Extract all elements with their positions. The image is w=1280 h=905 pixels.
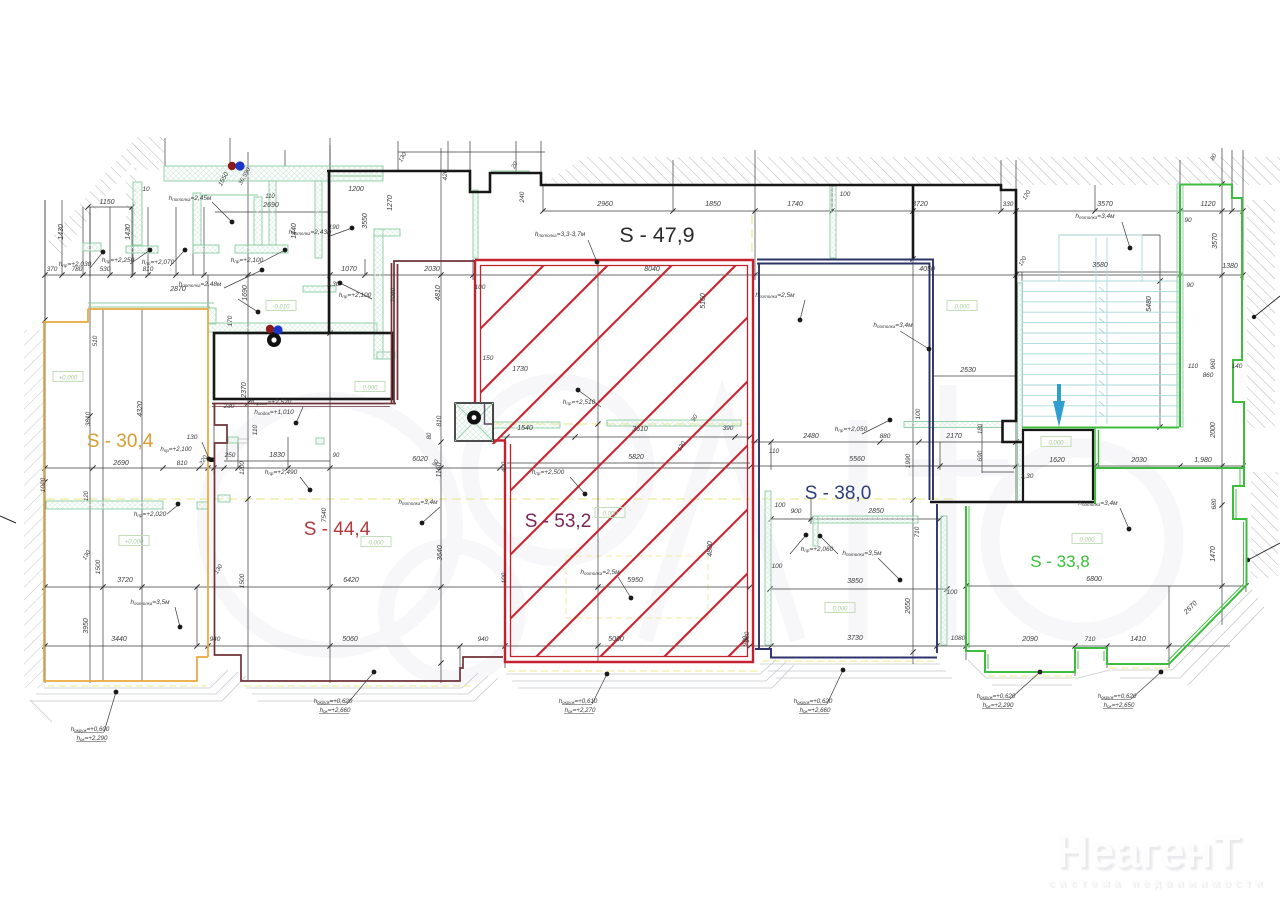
svg-text:2960: 2960	[596, 201, 613, 208]
svg-text:0,000: 0,000	[362, 386, 378, 392]
svg-text:6420: 6420	[343, 577, 359, 584]
svg-text:80: 80	[427, 432, 433, 439]
svg-text:140: 140	[1232, 363, 1243, 370]
svg-text:0,000: 0,000	[368, 541, 384, 547]
svg-text:250: 250	[224, 452, 236, 459]
svg-text:5560: 5560	[849, 456, 865, 463]
svg-text:130: 130	[398, 151, 409, 163]
svg-text:8040: 8040	[644, 266, 660, 273]
svg-text:S - 38,0: S - 38,0	[805, 483, 872, 504]
svg-text:90: 90	[1184, 217, 1192, 224]
svg-text:2530: 2530	[959, 367, 976, 374]
red/blue dots	[228, 162, 236, 170]
svg-text:1080: 1080	[951, 635, 966, 642]
svg-text:10: 10	[142, 186, 150, 193]
svg-text:hподок=+1,010: hподок=+1,010	[254, 409, 294, 416]
svg-text:5950: 5950	[627, 577, 643, 584]
teal partition w3	[254, 197, 262, 245]
svg-text:hокруж=+0,620: hокруж=+0,620	[1098, 693, 1137, 700]
svg-text:hок=+2,290: hок=+2,290	[983, 702, 1014, 709]
svg-text:hпотолка=2,5м: hпотолка=2,5м	[580, 569, 620, 576]
svg-text:4320: 4320	[137, 401, 144, 417]
green wall stubs vertical	[473, 190, 478, 258]
svg-text:90: 90	[1186, 282, 1194, 289]
svg-text:1690: 1690	[242, 285, 249, 301]
svg-text:130: 130	[187, 434, 198, 441]
hatch right side	[1247, 200, 1275, 428]
svg-text:6800: 6800	[1086, 576, 1102, 583]
svg-text:810: 810	[436, 415, 443, 426]
teal band inside orange room	[46, 501, 163, 509]
staircase	[1022, 235, 1179, 427]
svg-text:3850: 3850	[847, 578, 863, 585]
hatch band top-left diagonal	[45, 140, 141, 258]
svg-text:hпотолка=3,4м: hпотолка=3,4м	[398, 499, 438, 506]
svg-text:940: 940	[478, 636, 489, 643]
svg-text:1410: 1410	[1130, 636, 1146, 643]
svg-text:hок=+2,270: hок=+2,270	[565, 707, 596, 714]
svg-text:100: 100	[772, 563, 783, 570]
svg-text:3730: 3730	[847, 635, 863, 642]
svg-text:5160: 5160	[700, 293, 707, 309]
svg-text:120: 120	[1022, 189, 1033, 201]
svg-text:hпр=+2,250: hпр=+2,250	[102, 257, 135, 264]
svg-text:1,30: 1,30	[1021, 473, 1034, 480]
svg-text:0,000: 0,000	[602, 512, 618, 518]
svg-text:3720: 3720	[912, 201, 928, 208]
svg-text:hок=+2,290: hок=+2,290	[77, 735, 108, 742]
svg-text:hпр=+2,490: hпр=+2,490	[265, 469, 298, 476]
svg-text:1,980: 1,980	[1194, 457, 1212, 464]
svg-text:1620: 1620	[1049, 457, 1065, 464]
svg-text:5060: 5060	[342, 636, 358, 643]
navy room S-38,0	[755, 260, 937, 658]
svg-text:1430: 1430	[58, 224, 65, 240]
svg-text:1540: 1540	[517, 425, 533, 432]
red room S-53,2 walls	[475, 260, 753, 662]
svg-text:hокруж=+0,600: hокруж=+0,600	[71, 726, 110, 733]
svg-text:1470: 1470	[1210, 546, 1217, 562]
svg-text:1830: 1830	[269, 452, 285, 459]
svg-text:1730: 1730	[512, 366, 528, 373]
teal partition w4	[269, 181, 276, 245]
svg-text:1500: 1500	[239, 573, 246, 588]
svg-text:980: 980	[743, 635, 749, 646]
teal in red room top	[493, 422, 560, 428]
svg-text:5060: 5060	[608, 636, 624, 643]
svg-text:4810: 4810	[435, 285, 442, 301]
svg-text:880: 880	[880, 433, 891, 440]
svg-text:S - 53,2: S - 53,2	[525, 511, 592, 532]
svg-text:3610: 3610	[632, 426, 648, 433]
svg-text:240: 240	[519, 191, 526, 203]
svg-text:2170: 2170	[945, 433, 962, 440]
svg-text:110: 110	[252, 424, 259, 435]
edge leaders	[0, 516, 16, 523]
stair arrow	[1053, 401, 1065, 427]
svg-text:120: 120	[84, 490, 90, 501]
column	[455, 403, 493, 441]
svg-text:1430: 1430	[125, 224, 132, 240]
svg-text:1200: 1200	[240, 461, 246, 475]
svg-text:960: 960	[1210, 358, 1217, 369]
svg-text:5820: 5820	[628, 454, 644, 461]
svg-text:3570: 3570	[1212, 233, 1219, 249]
svg-text:hокруж=+0,620: hокруж=+0,620	[794, 698, 833, 705]
svg-text:2480: 2480	[802, 433, 819, 440]
svg-text:530: 530	[100, 266, 111, 273]
svg-text:2690: 2690	[262, 202, 279, 209]
teal wall right of stairs	[1177, 184, 1183, 427]
svg-text:hпотолка=3,4м: hпотолка=3,4м	[1075, 213, 1115, 220]
agency logo	[1048, 828, 1248, 889]
svg-text:710: 710	[1085, 636, 1096, 643]
svg-text:S - 47,9: S - 47,9	[619, 223, 694, 247]
svg-text:810: 810	[143, 266, 154, 273]
svg-text:2000: 2000	[1210, 422, 1217, 439]
yellow dash below walls	[48, 661, 1168, 686]
svg-text:100: 100	[947, 589, 958, 596]
svg-text:hпр=+2,030: hпр=+2,030	[59, 261, 92, 268]
svg-text:hпр=+2,070: hпр=+2,070	[142, 259, 175, 266]
svg-text:1740: 1740	[787, 201, 803, 208]
svg-text:1440: 1440	[291, 223, 298, 239]
leader lines with dots	[90, 252, 103, 268]
svg-text:hпр=+2,050: hпр=+2,050	[835, 426, 868, 433]
svg-text:110: 110	[1188, 363, 1199, 370]
svg-text:1,30: 1,30	[327, 281, 340, 288]
svg-text:3720: 3720	[117, 577, 133, 584]
svg-text:510: 510	[92, 335, 99, 346]
black exterior walls	[214, 171, 1095, 502]
svg-text:2690: 2690	[112, 460, 129, 467]
svg-text:150: 150	[483, 355, 494, 362]
svg-text:110: 110	[769, 448, 780, 455]
svg-text:940: 940	[210, 636, 221, 643]
svg-text:1270: 1270	[387, 195, 394, 211]
svg-text:100: 100	[840, 191, 851, 198]
bottom offset contours	[30, 670, 246, 722]
chain ticks	[42, 181, 1248, 665]
svg-text:S - 30,4: S - 30,4	[87, 431, 154, 452]
svg-text:hокруж=+0,620: hокруж=+0,620	[977, 693, 1016, 700]
svg-text:3950: 3950	[83, 618, 90, 634]
svg-text:hпотолка=2,45м: hпотолка=2,45м	[169, 195, 212, 202]
red hatch	[79, 250, 1135, 666]
svg-text:20: 20	[510, 161, 519, 171]
svg-text:2090: 2090	[1021, 636, 1038, 643]
svg-text:hпотолка=2,48м: hпотолка=2,48м	[179, 281, 222, 288]
svg-text:hок=+2,650: hок=+2,650	[1104, 702, 1135, 709]
svg-text:hокруж=+0,620: hокруж=+0,620	[314, 698, 353, 705]
svg-text:1200: 1200	[348, 186, 364, 193]
svg-text:860: 860	[1203, 372, 1214, 379]
svg-text:3440: 3440	[111, 636, 127, 643]
svg-text:+0,000: +0,000	[59, 376, 78, 382]
svg-text:3580: 3580	[1092, 262, 1108, 269]
svg-text:170: 170	[227, 315, 234, 326]
orange room S-30,4	[44, 309, 208, 681]
svg-text:hпроем=+2,520: hпроем=+2,520	[251, 399, 292, 406]
svg-text:6020: 6020	[412, 456, 428, 463]
svg-text:100: 100	[775, 502, 786, 509]
svg-text:1150: 1150	[99, 199, 114, 206]
hatch band above top wall	[541, 157, 1280, 185]
teal partition w5	[315, 181, 322, 258]
svg-text:3550: 3550	[362, 213, 369, 229]
svg-text:120: 120	[1018, 255, 1029, 267]
svg-text:+0,000: +0,000	[125, 540, 144, 546]
svg-text:1020: 1020	[40, 477, 47, 492]
svg-text:hпотолка=2,5м: hпотолка=2,5м	[755, 292, 795, 299]
maroon room S-44,4	[212, 261, 503, 681]
svg-text:1990: 1990	[905, 453, 912, 468]
svg-text:2570: 2570	[1182, 600, 1199, 617]
svg-text:100: 100	[915, 408, 922, 419]
svg-text:1500: 1500	[95, 559, 102, 574]
teal corridor	[88, 303, 214, 307]
svg-text:330: 330	[1003, 201, 1014, 208]
svg-text:hпотолка=3,5м: hпотолка=3,5м	[130, 599, 170, 606]
svg-text:2370: 2370	[241, 382, 248, 399]
svg-text:S - 44,4: S - 44,4	[304, 519, 371, 540]
svg-text:3810: 3810	[85, 411, 92, 426]
svg-text:180: 180	[978, 423, 984, 434]
svg-text:130: 130	[82, 549, 93, 561]
svg-text:400: 400	[501, 461, 508, 472]
svg-text:390: 390	[723, 425, 734, 432]
svg-text:hокруж=+0,610: hокруж=+0,610	[559, 698, 598, 705]
level boxes	[53, 372, 83, 382]
teal in navy room	[765, 491, 771, 645]
svg-text:1380: 1380	[1222, 263, 1238, 270]
svg-text:hпотолка=3,4м: hпотолка=3,4м	[873, 322, 913, 329]
dimension chains	[45, 138, 1246, 683]
svg-text:4050: 4050	[919, 266, 935, 273]
svg-text:2650: 2650	[905, 598, 912, 615]
svg-text:900: 900	[791, 508, 802, 515]
svg-text:hпр=+2,020: hпр=+2,020	[134, 511, 167, 518]
svg-text:370: 370	[47, 266, 58, 273]
svg-text:hпотолка=3,5м: hпотолка=3,5м	[842, 550, 882, 557]
svg-text:hпр=+2,060: hпр=+2,060	[801, 546, 834, 553]
svg-text:420: 420	[442, 169, 449, 180]
svg-text:5480: 5480	[1146, 296, 1153, 312]
teal partition w1	[133, 182, 142, 245]
svg-text:690: 690	[977, 450, 984, 461]
svg-text:0,000: 0,000	[1048, 441, 1064, 447]
svg-text:2850: 2850	[867, 508, 884, 515]
svg-text:2030: 2030	[1130, 457, 1147, 464]
svg-text:2030: 2030	[423, 266, 440, 273]
svg-text:0,000: 0,000	[832, 607, 848, 613]
svg-text:hпотолка=3,3-3,7м: hпотолка=3,3-3,7м	[535, 231, 586, 238]
svg-text:230: 230	[223, 403, 235, 410]
svg-text:680: 680	[1211, 498, 1218, 509]
svg-text:810: 810	[177, 460, 188, 467]
svg-text:hпр=+2,100: hпр=+2,100	[160, 446, 192, 453]
svg-text:hпр=+2,100: hпр=+2,100	[339, 292, 372, 299]
svg-text:hпр=+2,500: hпр=+2,500	[532, 469, 565, 476]
teal partition w2	[193, 193, 201, 245]
svg-text:90: 90	[333, 453, 340, 459]
teal band top	[164, 166, 383, 181]
svg-text:1850: 1850	[705, 201, 721, 208]
svg-text:hок=+2,660: hок=+2,660	[320, 707, 351, 714]
yellow axis lines	[46, 215, 958, 499]
svg-text:0,000: 0,000	[1079, 538, 1095, 544]
svg-text:1120: 1120	[1200, 201, 1215, 208]
green room S-33,8 + right edge	[966, 185, 1247, 673]
svg-text:0,000: 0,000	[954, 305, 970, 311]
svg-text:7060: 7060	[390, 287, 397, 302]
svg-text:hок=+2,660: hок=+2,660	[800, 707, 831, 714]
svg-text:100: 100	[475, 284, 486, 291]
svg-text:3570: 3570	[1097, 201, 1113, 208]
svg-text:hпотолка=3,4м: hпотолка=3,4м	[1078, 500, 1118, 507]
svg-text:1070: 1070	[341, 266, 357, 273]
svg-text:S - 33,8: S - 33,8	[1030, 552, 1090, 571]
svg-text:190: 190	[329, 224, 340, 231]
teal stubs maroon room	[197, 502, 208, 509]
svg-text:710: 710	[914, 526, 921, 537]
svg-text:-0,010: -0,010	[272, 305, 290, 311]
svg-text:hпр=+2,100: hпр=+2,100	[231, 257, 264, 264]
svg-text:hпр=+2,510: hпр=+2,510	[563, 399, 596, 406]
svg-text:100: 100	[501, 572, 508, 583]
svg-text:110: 110	[265, 194, 275, 200]
watermark	[205, 382, 1174, 678]
svg-text:3640: 3640	[437, 545, 444, 561]
svg-text:4800: 4800	[707, 541, 714, 557]
